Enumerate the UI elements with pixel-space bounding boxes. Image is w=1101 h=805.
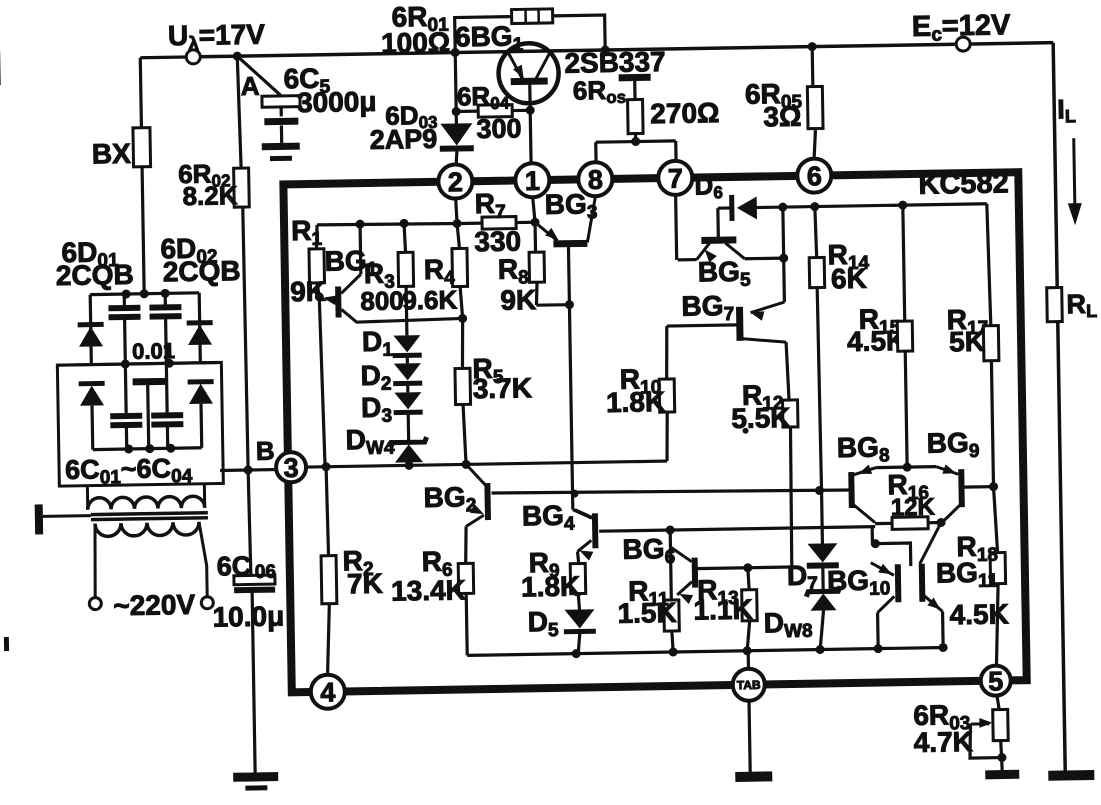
- svg-text:7: 7: [668, 163, 684, 193]
- svg-text:4.7K: 4.7K: [913, 726, 973, 758]
- svg-text:4.5K: 4.5K: [949, 598, 1009, 630]
- svg-text:3000μ: 3000μ: [297, 86, 377, 118]
- svg-text:5K: 5K: [949, 326, 985, 358]
- svg-text:100Ω: 100Ω: [381, 27, 451, 59]
- svg-text:2CQB: 2CQB: [163, 255, 241, 287]
- svg-text:1.8K: 1.8K: [521, 571, 581, 603]
- svg-text:800: 800: [360, 285, 404, 316]
- svg-text:TAB: TAB: [737, 678, 761, 692]
- svg-text:1.8K: 1.8K: [606, 386, 666, 418]
- svg-text:8: 8: [588, 165, 604, 195]
- svg-text:7K: 7K: [347, 568, 383, 600]
- svg-text:330: 330: [474, 225, 521, 257]
- svg-text:3: 3: [283, 453, 299, 483]
- svg-text:5.5K: 5.5K: [731, 402, 791, 434]
- svg-text:12K: 12K: [891, 494, 936, 522]
- svg-text:5: 5: [988, 666, 1004, 696]
- svg-text:9.6K: 9.6K: [402, 285, 458, 316]
- svg-text:6C: 6C: [216, 551, 251, 582]
- svg-text:9K: 9K: [500, 284, 536, 316]
- svg-text:270Ω: 270Ω: [650, 97, 720, 129]
- svg-text:~220V: ~220V: [113, 589, 196, 621]
- svg-text:1.5K: 1.5K: [617, 597, 677, 629]
- svg-text:B: B: [256, 436, 275, 466]
- svg-text:10.0μ: 10.0μ: [212, 600, 284, 632]
- svg-text:2AP9: 2AP9: [369, 124, 437, 155]
- svg-text:13.4K: 13.4K: [391, 574, 466, 606]
- svg-text:2: 2: [448, 167, 464, 197]
- svg-text:6: 6: [807, 161, 823, 191]
- svg-text:Uλ=17V: Uλ=17V: [168, 19, 266, 56]
- svg-text:9K: 9K: [290, 276, 326, 308]
- svg-text:1.1K: 1.1K: [693, 594, 753, 626]
- svg-text:8.2K: 8.2K: [182, 180, 238, 211]
- svg-text:3Ω: 3Ω: [763, 101, 802, 133]
- svg-text:3.7K: 3.7K: [473, 372, 533, 404]
- svg-text:BX: BX: [92, 138, 132, 170]
- svg-text:6K: 6K: [831, 263, 867, 295]
- svg-text:300: 300: [476, 113, 522, 144]
- svg-text:4: 4: [320, 677, 336, 707]
- svg-text:KC582: KC582: [918, 167, 1009, 200]
- svg-text:1: 1: [525, 166, 541, 196]
- svg-text:2CQB: 2CQB: [56, 259, 134, 291]
- svg-text:06: 06: [255, 562, 276, 583]
- svg-text:Ec=12V: Ec=12V: [912, 9, 1012, 46]
